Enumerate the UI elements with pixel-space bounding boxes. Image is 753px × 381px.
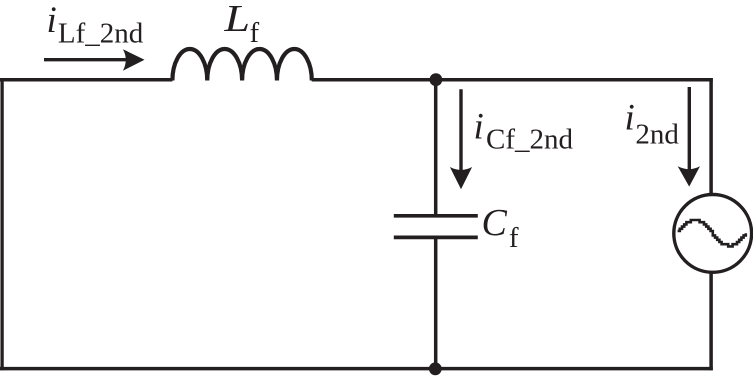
svg-text:f: f	[250, 17, 260, 49]
svg-text:i: i	[625, 98, 635, 139]
AC source sine wave	[678, 220, 746, 246]
wire: capacitor branch upper	[434, 80, 438, 215]
svg-text:i: i	[474, 106, 484, 147]
wire: top-right horizontal segment	[312, 78, 713, 82]
node: bottom junction dot	[429, 362, 442, 375]
wire: capacitor branch lower	[434, 239, 438, 369]
svg-text:2nd: 2nd	[635, 118, 679, 150]
inductor Lf	[172, 49, 311, 81]
wire: bottom horizontal	[0, 367, 713, 371]
arrow i2nd (vertical)	[688, 87, 691, 171]
svg-text:L: L	[223, 0, 250, 40]
wire: left vertical	[0, 78, 3, 370]
wire: top-left horizontal segment	[0, 78, 172, 82]
svg-text:Lf_2nd: Lf_2nd	[58, 18, 144, 50]
svg-text:i: i	[47, 0, 57, 41]
svg-text:C: C	[482, 202, 508, 244]
svg-text:Cf_2nd: Cf_2nd	[486, 123, 574, 155]
wire: right vertical lower (source to bottom)	[709, 272, 713, 370]
node: top junction dot	[430, 73, 443, 86]
capacitor Cf plates	[394, 214, 478, 218]
svg-text:f: f	[509, 222, 519, 254]
AC source circle	[674, 195, 752, 273]
arrow iCf_2nd (vertical)	[459, 89, 462, 172]
wire: right vertical upper (to source)	[709, 78, 713, 195]
arrow iLf_2nd (horizontal)	[44, 58, 126, 61]
